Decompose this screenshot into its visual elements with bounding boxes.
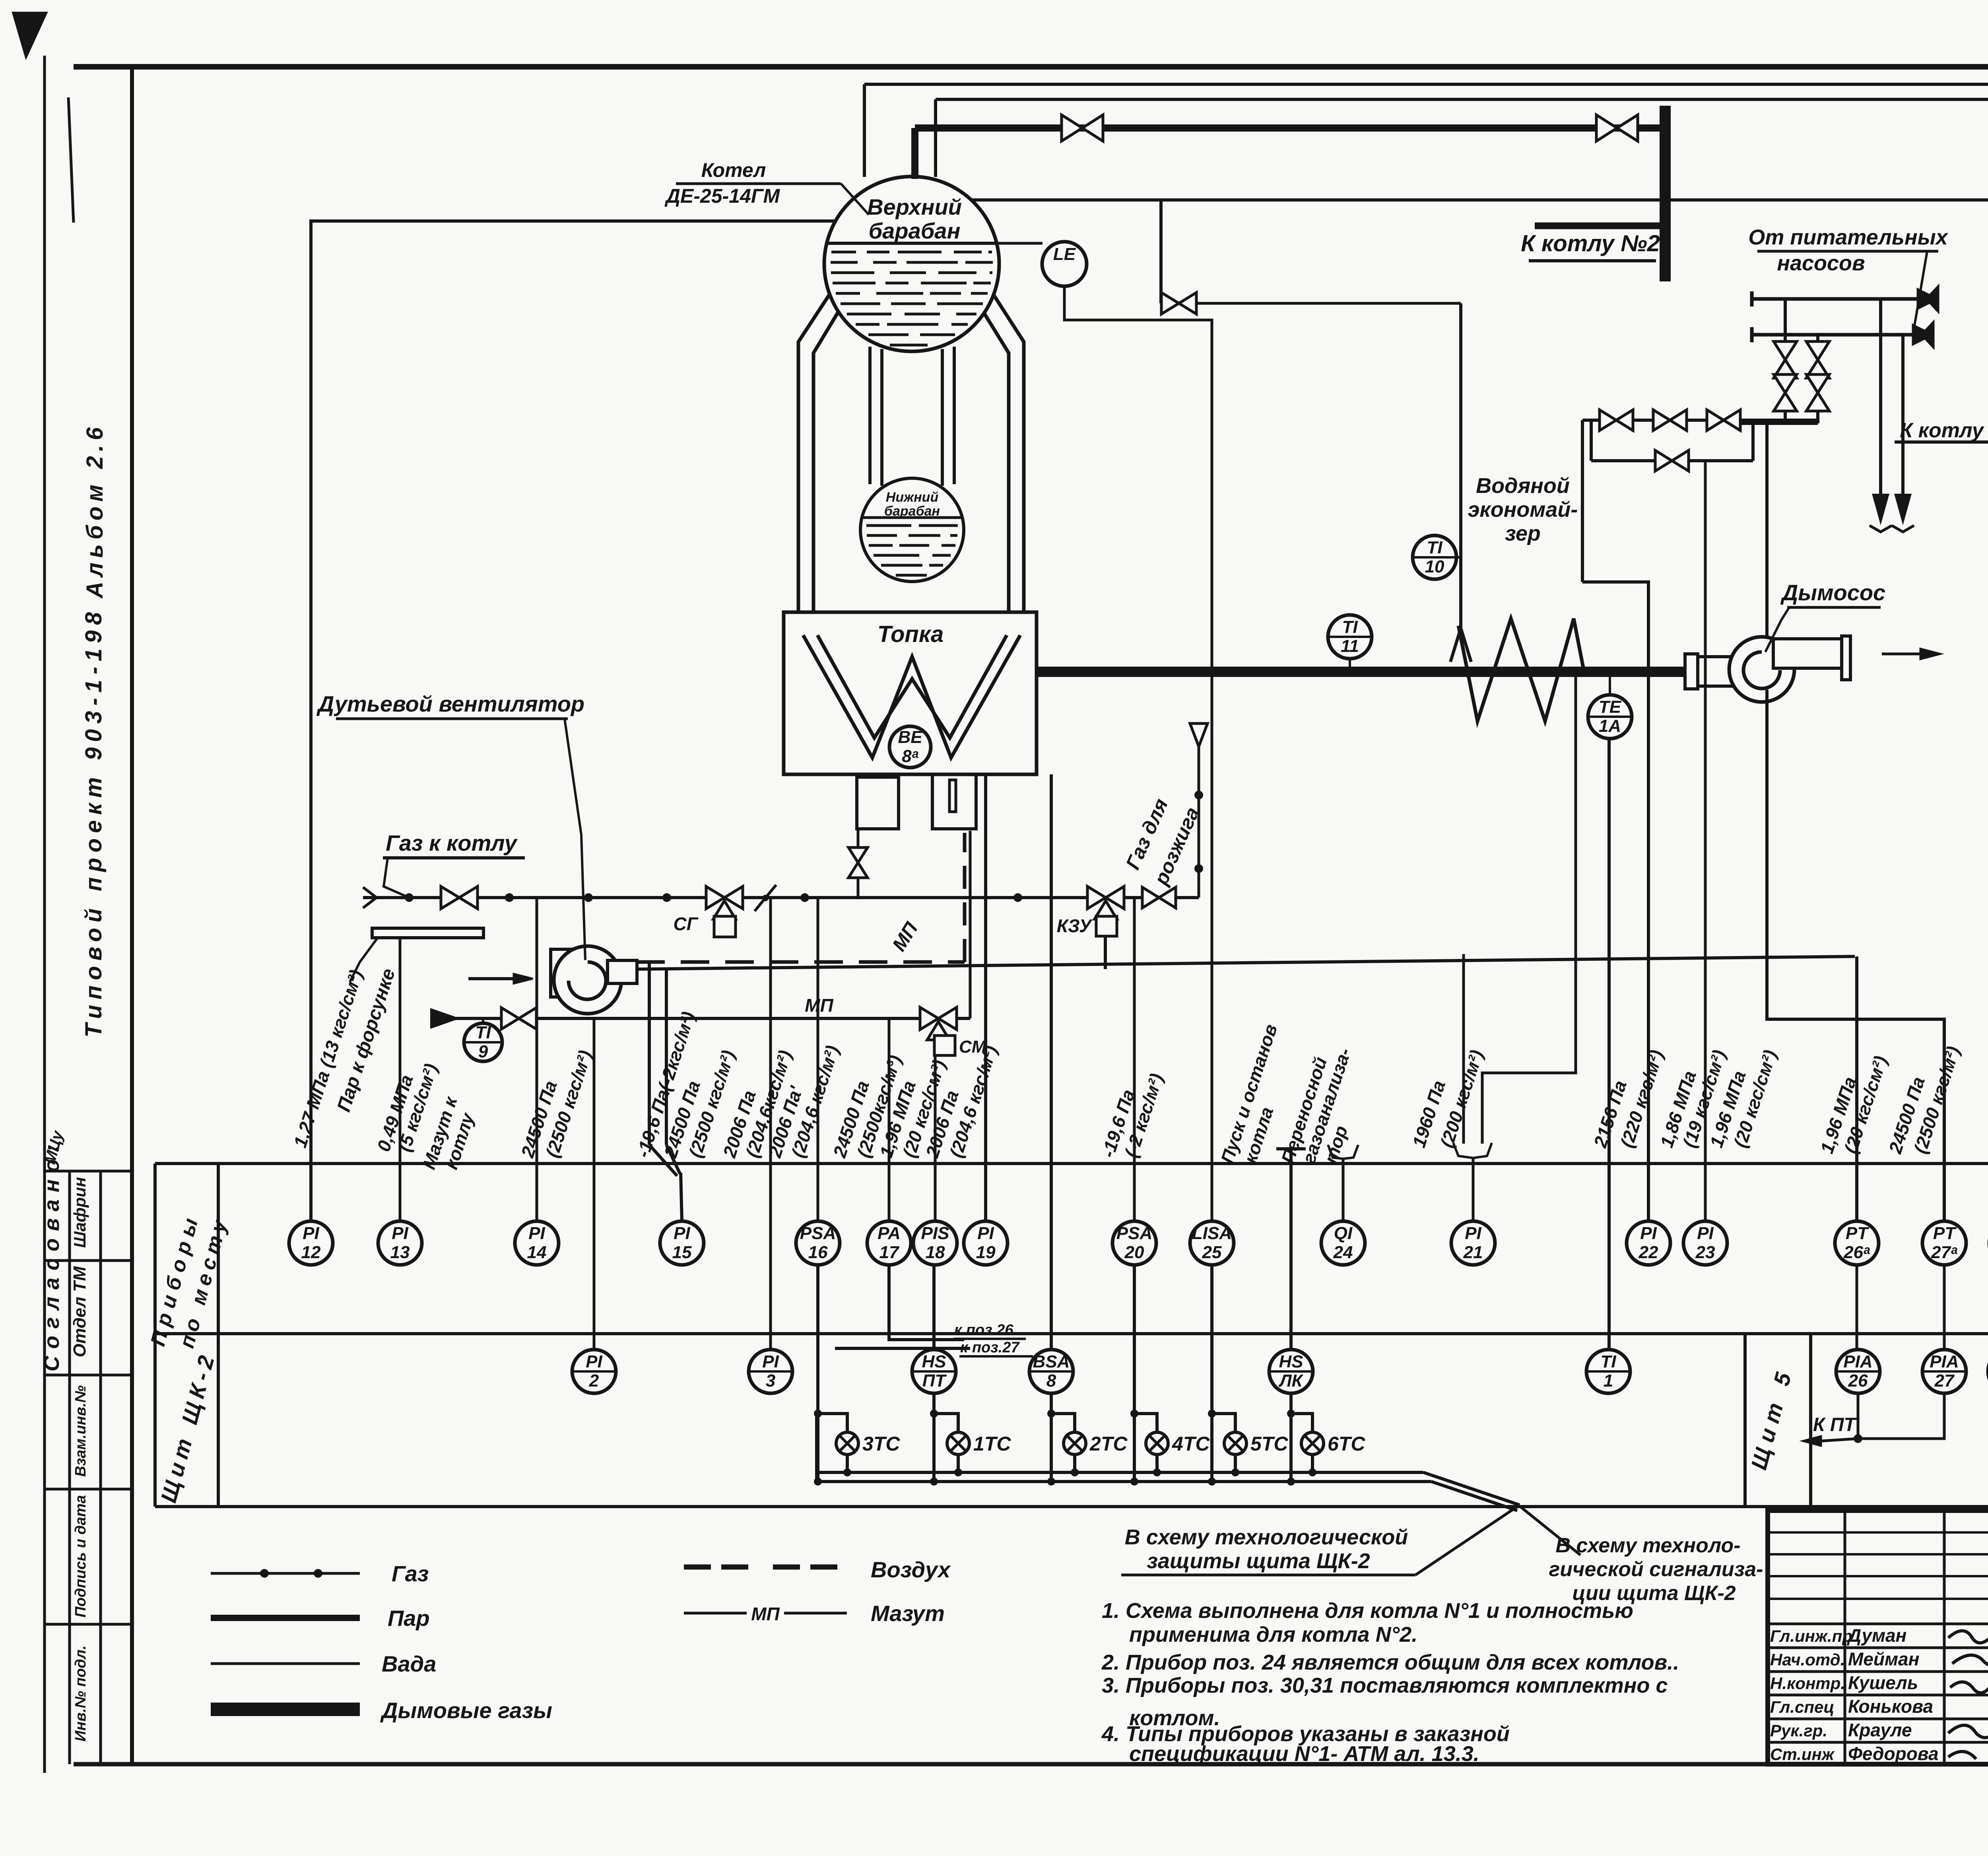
device line 3ТС to bus xyxy=(816,1414,819,1482)
air intake arrow xyxy=(468,977,514,980)
svg-text:27: 27 xyxy=(1934,1371,1955,1391)
gas label leader xyxy=(384,858,409,898)
instrument PI 12 xyxy=(289,1221,333,1265)
svg-text:Газ: Газ xyxy=(392,1561,429,1586)
svg-text:Пар: Пар xyxy=(388,1606,430,1631)
svg-text:TI: TI xyxy=(1342,617,1358,637)
svg-text:PI: PI xyxy=(303,1224,319,1243)
instrument PI 15 xyxy=(660,1221,704,1265)
instrument PI 13 xyxy=(378,1221,422,1265)
svg-text:PSA: PSA xyxy=(800,1224,836,1243)
title block signature rows xyxy=(1768,1623,1988,1625)
steam lance to burner xyxy=(372,928,483,938)
instrument PIA 27 panel xyxy=(1922,1350,1966,1393)
svg-text:BE: BE xyxy=(898,727,923,747)
svg-text:Нижний: Нижний xyxy=(886,490,939,505)
feed water upper inlet funnel xyxy=(1918,290,1936,308)
svg-text:1А: 1А xyxy=(1599,716,1621,736)
instrument TE 1A xyxy=(1588,695,1632,739)
svg-text:защиты щита ЩК-2: защиты щита ЩК-2 xyxy=(1147,1549,1370,1573)
svg-text:TI: TI xyxy=(1427,538,1442,557)
mazut valve 1 xyxy=(501,1008,519,1029)
long line fan outlet to PT26a xyxy=(636,956,1855,969)
svg-text:ПТ: ПТ xyxy=(922,1371,947,1391)
signal lamp 5ТС xyxy=(1212,1265,1235,1432)
device line 4ТС to bus xyxy=(1133,1414,1136,1482)
svg-text:3. Приборы поз. 30,31 постав: 3. Приборы поз. 30,31 поставляются компл… xyxy=(1102,1674,1668,1697)
instrument PA 17 xyxy=(867,1221,911,1265)
svg-text:Нач.отд.: Нач.отд. xyxy=(1770,1650,1845,1669)
svg-text:Отдел ТМ: Отдел ТМ xyxy=(70,1266,89,1357)
steam header valve 1 xyxy=(1062,115,1082,141)
device line 6ТС to bus xyxy=(1289,1414,1293,1482)
instrument PT 27ᵃ xyxy=(1922,1221,1966,1265)
svg-text:TI: TI xyxy=(475,1023,491,1042)
instrument PI 19 xyxy=(964,1221,1008,1265)
instrument LISA 25 xyxy=(1190,1221,1234,1265)
svg-text:PI: PI xyxy=(392,1224,408,1243)
svg-text:Н.контр.: Н.контр. xyxy=(1770,1674,1845,1693)
signal QI24 line xyxy=(1342,1159,1345,1221)
gas burner branch xyxy=(857,829,860,898)
signal PI15 impulse lines xyxy=(648,962,651,1145)
downcomer tubes right xyxy=(941,349,944,486)
feed label leader xyxy=(1913,251,1927,333)
downcomer tubes left xyxy=(868,347,872,484)
flue gas thick line xyxy=(1037,667,1685,677)
svg-text:26: 26 xyxy=(1848,1371,1868,1391)
dymosos leader xyxy=(1765,607,1789,652)
corner scan smudge xyxy=(12,12,48,60)
svg-text:21: 21 xyxy=(1463,1243,1483,1262)
fan leader xyxy=(565,719,585,960)
economizer feed valve xyxy=(1161,293,1179,314)
furnace box xyxy=(784,612,1037,774)
legend Mazut line xyxy=(684,1612,747,1615)
svg-text:17: 17 xyxy=(879,1243,900,1262)
svg-text:PI: PI xyxy=(674,1224,690,1243)
boiler body outer left wall xyxy=(798,283,837,612)
instrument table row separator xyxy=(155,1332,1988,1335)
signal PA17 line xyxy=(888,1018,891,1221)
instrument PIA 26 panel xyxy=(1836,1350,1880,1393)
steam stub to boiler 2 xyxy=(1535,223,1660,229)
svg-text:Мазут: Мазут xyxy=(871,1601,945,1626)
LE signal path to LISA25 xyxy=(1064,286,1212,1221)
legend Vozdukh line xyxy=(684,1565,847,1570)
svg-text:18: 18 xyxy=(926,1243,945,1262)
svg-text:Верхний: Верхний xyxy=(867,194,962,219)
legend Dymovye gazy line xyxy=(211,1703,360,1716)
instrument TI 9 xyxy=(464,1023,502,1061)
legend Gaz line xyxy=(211,1572,360,1575)
svg-text:СГ: СГ xyxy=(674,913,699,934)
svg-text:PT: PT xyxy=(1846,1224,1869,1243)
furnace W screen inner xyxy=(817,635,1007,738)
instrument PSA 16 xyxy=(796,1221,840,1265)
svg-text:PSA: PSA xyxy=(1116,1224,1152,1243)
signal PI21 line xyxy=(1472,1158,1475,1221)
frame top border xyxy=(74,64,1988,70)
svg-text:22: 22 xyxy=(1639,1243,1658,1262)
instrument PI 2 panel xyxy=(572,1350,616,1393)
svg-text:PIS: PIS xyxy=(921,1224,949,1243)
frame bottom border xyxy=(74,1762,1988,1767)
svg-text:Крауле: Крауле xyxy=(1848,1720,1912,1740)
igniter stub xyxy=(949,780,956,812)
instrument HS ПТ panel xyxy=(912,1350,956,1393)
svg-text:PI: PI xyxy=(586,1352,602,1371)
svg-text:PI: PI xyxy=(1465,1224,1481,1243)
svg-text:В схему техноло-: В схему техноло- xyxy=(1555,1534,1740,1557)
drum water line to economizer xyxy=(1159,200,1163,303)
svg-text:PI: PI xyxy=(1697,1224,1714,1243)
furnace W screen outer xyxy=(803,635,1020,758)
signal lamp 6ТС xyxy=(1291,1394,1312,1432)
gas valve 1 xyxy=(441,886,459,909)
instrument PI 22 xyxy=(1627,1221,1670,1265)
feed water line upper xyxy=(1752,297,1918,301)
smoke exhauster inlet duct xyxy=(1685,654,1698,689)
svg-text:гической сигнализа-: гической сигнализа- xyxy=(1549,1558,1763,1581)
instrument PI 14 xyxy=(515,1221,559,1265)
signal PI22 line xyxy=(1582,582,1648,1221)
gas line start tick xyxy=(363,887,377,908)
stamp column lines xyxy=(68,1171,71,1764)
smoke exhauster outlet arrow xyxy=(1882,653,1920,656)
svg-text:Гл.спец: Гл.спец xyxy=(1770,1698,1834,1716)
frame left border xyxy=(130,66,134,1765)
signal PIS18 line xyxy=(934,1055,937,1221)
svg-text:PI: PI xyxy=(1640,1224,1657,1243)
svg-text:Дымосос: Дымосос xyxy=(1780,580,1885,605)
svg-text:15: 15 xyxy=(672,1243,692,1262)
gas ignition valve 2 xyxy=(1142,887,1159,908)
mazut line xyxy=(431,1017,970,1020)
svg-text:5ТС: 5ТС xyxy=(1250,1433,1288,1455)
instrument BE 8a xyxy=(889,726,931,768)
boiler body inner left wall xyxy=(813,299,846,612)
title block signature columns xyxy=(1844,1511,1846,1764)
title block outer xyxy=(1768,1511,1988,1764)
svg-text:К ПТ: К ПТ xyxy=(1813,1414,1857,1435)
economizer inlet pipe right xyxy=(1581,420,1584,582)
svg-text:В схему технологической: В схему технологической xyxy=(1125,1525,1408,1549)
signature scribbles xyxy=(1948,1631,1988,1759)
svg-text:ДЕ-25-14ГМ: ДЕ-25-14ГМ xyxy=(664,185,780,207)
boiler body outer right wall xyxy=(986,283,1024,612)
feed water lower inlet funnel xyxy=(1913,326,1932,344)
svg-text:К котлу №2: К котлу №2 xyxy=(1900,419,1988,442)
svg-text:20: 20 xyxy=(1124,1243,1144,1262)
K PT bus xyxy=(1858,1394,1944,1439)
svg-text:Инв.№ подл.: Инв.№ подл. xyxy=(72,1645,89,1742)
svg-text:спецификации N°1- АТМ ал: спецификации N°1- АТМ ал. 13.3. xyxy=(1129,1742,1479,1766)
boiler body inner right wall xyxy=(975,299,1009,612)
svg-text:Федорова: Федорова xyxy=(1848,1744,1939,1764)
lance leader xyxy=(350,938,378,982)
signal PI12 line xyxy=(311,221,835,1221)
signal PSA16 line xyxy=(817,898,819,1221)
svg-text:Дымовые газы: Дымовые газы xyxy=(380,1698,552,1723)
svg-text:2ТС: 2ТС xyxy=(1089,1433,1128,1455)
instrument table left border xyxy=(153,1164,157,1507)
instrument LE xyxy=(995,242,1043,245)
svg-text:Подпись и дата: Подпись и дата xyxy=(72,1495,89,1617)
svg-text:3ТС: 3ТС xyxy=(862,1433,900,1455)
legend Voda line xyxy=(211,1662,360,1665)
svg-text:экономай-: экономай- xyxy=(1468,498,1578,522)
feed manifold line xyxy=(1733,422,1818,425)
svg-text:PI: PI xyxy=(762,1352,779,1371)
lamp bus line 2 xyxy=(817,1480,1431,1483)
instrument PIS 18 xyxy=(913,1221,957,1265)
svg-text:Шафрин: Шафрин xyxy=(70,1177,89,1248)
svg-text:1ТС: 1ТС xyxy=(973,1433,1011,1455)
instrument table label column line xyxy=(217,1164,220,1507)
svg-text:11: 11 xyxy=(1341,636,1359,656)
svg-text:PI: PI xyxy=(977,1224,994,1243)
steam line thick riser xyxy=(911,128,918,179)
mazut control valve SM xyxy=(920,1007,938,1030)
air duct dashed line xyxy=(636,960,965,964)
margin slanted tick xyxy=(68,97,74,223)
svg-text:ЛК: ЛК xyxy=(1278,1371,1303,1391)
signal line y520 from drum to LI31 xyxy=(971,198,1988,202)
gas ignition riser xyxy=(1198,747,1200,898)
svg-text:Кушель: Кушель xyxy=(1848,1672,1918,1693)
gas ignition funnel xyxy=(1190,723,1208,747)
instrument PI 23 xyxy=(1683,1221,1727,1265)
signal lamp 4ТС xyxy=(1134,1265,1157,1432)
svg-text:зер: зер xyxy=(1505,522,1541,545)
feed water line lower xyxy=(1752,333,1913,337)
bus to protection scheme diagonal xyxy=(1423,1472,1520,1505)
svg-text:к поз.27: к поз.27 xyxy=(960,1339,1020,1356)
instrument PI 3 panel xyxy=(749,1350,792,1393)
svg-text:9: 9 xyxy=(478,1042,488,1061)
svg-text:PIA: PIA xyxy=(1930,1352,1959,1371)
svg-text:к поз.26: к поз.26 xyxy=(954,1322,1013,1338)
svg-text:2. Прибор поз. 24 является: 2. Прибор поз. 24 является общим для все… xyxy=(1101,1650,1679,1674)
signal PI19 line xyxy=(984,774,987,1221)
steam header valve 2 xyxy=(1596,115,1617,141)
svg-text:3: 3 xyxy=(766,1371,775,1391)
svg-text:МП: МП xyxy=(751,1604,780,1624)
svg-text:Мейман: Мейман xyxy=(1848,1649,1919,1670)
steam header thick line xyxy=(915,124,1665,132)
svg-text:HS: HS xyxy=(922,1352,946,1371)
dymosos suction signal to PT27a xyxy=(1767,690,1944,1221)
svg-text:25: 25 xyxy=(1202,1243,1222,1262)
instrument table bottom line xyxy=(155,1505,1988,1508)
instrument PSA 20 xyxy=(1112,1221,1156,1265)
svg-text:LE: LE xyxy=(1053,244,1076,264)
svg-text:КЗУ: КЗУ xyxy=(1057,915,1093,936)
svg-text:13: 13 xyxy=(390,1243,410,1262)
svg-text:TI: TI xyxy=(1600,1352,1616,1371)
k poz 26 27 note xyxy=(889,1265,964,1340)
upper drum water hatching xyxy=(831,251,856,254)
instrument HS ЛК panel xyxy=(1269,1350,1313,1393)
signal PI14 line xyxy=(536,898,538,1221)
svg-text:24: 24 xyxy=(1333,1243,1353,1262)
instrument table top line xyxy=(155,1162,1988,1165)
smoke exhauster outlet duct xyxy=(1773,639,1842,668)
svg-text:6ТС: 6ТС xyxy=(1328,1433,1365,1455)
svg-text:4ТС: 4ТС xyxy=(1172,1433,1210,1455)
svg-text:27ᵃ: 27ᵃ xyxy=(1931,1243,1958,1262)
svg-text:QI: QI xyxy=(1334,1224,1353,1243)
burner box right xyxy=(932,774,976,829)
svg-text:Газ к котлу: Газ к котлу xyxy=(386,830,518,855)
instrument PI 21 xyxy=(1451,1221,1495,1265)
signal line y206 from drum to PT28a xyxy=(864,83,1988,86)
signal lamp 2ТС xyxy=(1051,1394,1075,1432)
burner box left xyxy=(857,777,899,829)
svg-text:насосов: насосов xyxy=(1777,251,1865,275)
steam header end bar xyxy=(1660,106,1671,281)
svg-text:26ᵃ: 26ᵃ xyxy=(1843,1243,1870,1262)
svg-text:1: 1 xyxy=(1604,1371,1613,1391)
device line 2ТС to bus xyxy=(1050,1414,1053,1482)
svg-text:10: 10 xyxy=(1425,557,1444,576)
instrument BSA 8 panel xyxy=(1029,1350,1073,1393)
svg-text:PA: PA xyxy=(878,1224,901,1243)
gas check slash xyxy=(755,885,776,911)
feed drop arrow 1 xyxy=(1879,299,1882,495)
economizer bypass upper line xyxy=(1582,419,1818,422)
smoke exhauster xyxy=(1729,637,1794,702)
dymosos upper duct line xyxy=(1765,423,1769,636)
lower drum water level xyxy=(862,516,962,519)
drum steam stub thin left xyxy=(863,84,866,177)
row connector lines xyxy=(1856,1265,1858,1349)
device line 5ТС to bus xyxy=(1210,1414,1213,1482)
svg-text:8: 8 xyxy=(1046,1371,1056,1391)
svg-text:19: 19 xyxy=(976,1243,996,1262)
signal line y243 from drum to LI30 xyxy=(936,98,1988,101)
KZU stem to fan line xyxy=(1104,937,1107,969)
economizer coil zigzag xyxy=(1458,619,1584,721)
svg-text:HS: HS xyxy=(1279,1352,1303,1371)
svg-text:LISA: LISA xyxy=(1192,1224,1232,1243)
svg-text:1. Схема выполнена для котла: 1. Схема выполнена для котла N°1 и полно… xyxy=(1102,1599,1633,1623)
economizer bypass lower line xyxy=(1591,459,1753,462)
svg-text:От питательных: От питательных xyxy=(1748,225,1948,249)
upper drum water level xyxy=(828,242,995,245)
signal PI13 line xyxy=(399,938,402,1221)
feed valve stack 2 xyxy=(1816,335,1819,423)
svg-text:2: 2 xyxy=(589,1371,599,1391)
svg-text:Топка: Топка xyxy=(878,621,944,647)
boiler label leader xyxy=(841,184,869,215)
svg-text:К котлу №2: К котлу №2 xyxy=(1521,231,1660,256)
mazut riser to burner xyxy=(969,831,972,1018)
svg-text:Думан: Думан xyxy=(1846,1625,1906,1646)
signal lamp 3ТС xyxy=(818,1265,847,1432)
drum stub thin right xyxy=(934,99,937,177)
svg-text:PI: PI xyxy=(528,1224,545,1243)
mazut start arrow xyxy=(431,1010,456,1027)
svg-text:12: 12 xyxy=(301,1243,321,1262)
svg-text:Воздух: Воздух xyxy=(871,1557,951,1582)
svg-text:Гл.инж.пр: Гл.инж.пр xyxy=(1770,1627,1852,1645)
gas control valve SG xyxy=(706,886,724,909)
instrument TI 10 xyxy=(1413,535,1456,579)
gas ignition valve KZU xyxy=(1087,886,1106,909)
device line 1ТС to bus xyxy=(932,1414,936,1482)
title block upper small rows xyxy=(1768,1531,1988,1534)
svg-text:Ст.инж: Ст.инж xyxy=(1770,1745,1835,1764)
svg-text:Рук.гр.: Рук.гр. xyxy=(1770,1721,1827,1740)
instrument TI 11 xyxy=(1328,615,1372,659)
lamp bus line 1 xyxy=(817,1471,1423,1474)
svg-text:8ᵃ: 8ᵃ xyxy=(902,747,918,766)
svg-text:Водяной: Водяной xyxy=(1476,474,1570,498)
svg-text:23: 23 xyxy=(1695,1243,1715,1262)
feed drop arrow 2 xyxy=(1901,335,1905,495)
svg-text:Конькова: Конькова xyxy=(1848,1696,1933,1717)
svg-text:барабан: барабан xyxy=(869,218,961,243)
lower drum xyxy=(860,478,964,582)
svg-text:PT: PT xyxy=(1933,1224,1957,1243)
outer margin line xyxy=(43,56,46,1773)
svg-text:Взам.инв.№: Взам.инв.№ xyxy=(72,1385,89,1477)
legend Par line xyxy=(211,1615,360,1621)
svg-text:BSA: BSA xyxy=(1033,1352,1070,1371)
blower fan xyxy=(551,949,590,997)
upper drum xyxy=(824,176,999,351)
feed valve stack 1 xyxy=(1784,299,1787,423)
svg-text:PIA: PIA xyxy=(1843,1352,1872,1371)
signal PI23 line xyxy=(1704,461,1707,1221)
svg-text:применима для котла N°2.: применима для котла N°2. xyxy=(1129,1623,1417,1647)
svg-text:16: 16 xyxy=(808,1243,828,1262)
svg-text:Котел: Котел xyxy=(701,159,766,181)
instrument QI 24 xyxy=(1321,1221,1365,1265)
svg-text:барабан: барабан xyxy=(884,504,940,519)
instrument PT 26ᵃ xyxy=(1835,1221,1879,1265)
air duct riser dashed xyxy=(963,833,967,962)
gas main line xyxy=(363,896,1199,899)
panel Shchit 5 box xyxy=(1743,1334,1747,1507)
svg-text:14: 14 xyxy=(527,1243,547,1262)
instrument TI 1 panel xyxy=(1586,1350,1630,1393)
svg-text:Дутьевой вентилятор: Дутьевой вентилятор xyxy=(316,691,584,716)
signal lamp 1ТС xyxy=(934,1394,958,1432)
economizer outlet pipe left xyxy=(1459,303,1462,628)
svg-text:TE: TE xyxy=(1599,697,1622,717)
lower drum water hatching xyxy=(866,524,911,527)
signal PSA20 line xyxy=(1133,898,1136,1221)
svg-text:Вада: Вада xyxy=(382,1651,436,1676)
